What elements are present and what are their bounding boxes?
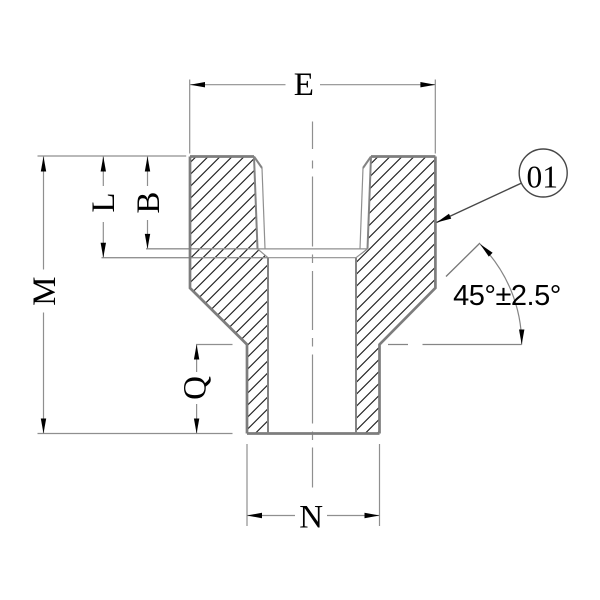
svg-text:E: E [294,67,314,103]
svg-text:45°±2.5°: 45°±2.5° [453,280,561,312]
svg-text:N: N [299,500,323,536]
svg-text:Q: Q [178,376,214,400]
svg-text:01: 01 [527,159,559,194]
svg-text:L: L [86,193,122,213]
svg-text:M: M [27,277,63,306]
svg-text:B: B [131,192,167,214]
